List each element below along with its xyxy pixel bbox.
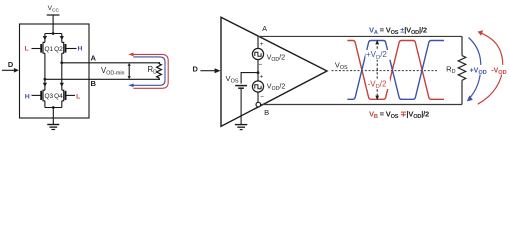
svg-text:Q3: Q3 xyxy=(44,93,53,100)
svg-text:D: D xyxy=(8,60,14,69)
svg-text:B: B xyxy=(264,108,269,117)
svg-text:A: A xyxy=(262,24,267,33)
svg-text:B: B xyxy=(91,79,97,88)
svg-text:Q2: Q2 xyxy=(54,46,63,53)
svg-text:A: A xyxy=(91,53,97,62)
svg-text:H: H xyxy=(25,93,30,100)
svg-text:Q4: Q4 xyxy=(54,93,63,100)
svg-text:L: L xyxy=(76,93,80,100)
svg-text:−: − xyxy=(260,94,264,101)
svg-text:H: H xyxy=(78,45,83,52)
svg-text:+: + xyxy=(260,74,264,81)
svg-text:L: L xyxy=(25,45,29,52)
svg-text:VA = VOS ±|VOD|/2: VA = VOS ±|VOD|/2 xyxy=(369,26,427,37)
svg-text:D: D xyxy=(193,64,199,73)
svg-text:+: + xyxy=(260,41,264,48)
svg-text:Q1: Q1 xyxy=(44,46,53,53)
svg-text:−: − xyxy=(259,61,263,68)
